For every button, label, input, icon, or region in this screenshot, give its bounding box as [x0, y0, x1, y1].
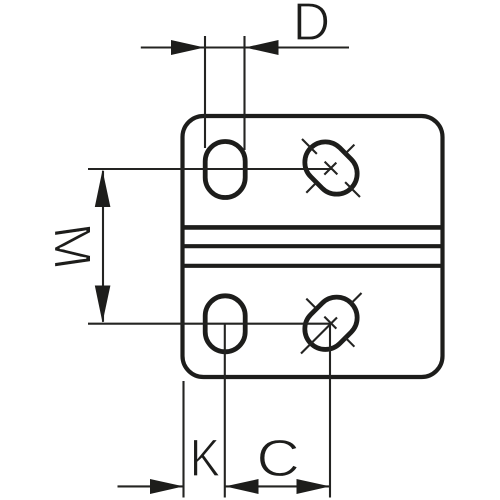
- hole top-left: [205, 142, 245, 198]
- slot top-right: [296, 133, 365, 202]
- extension line D left: [204, 36, 206, 148]
- svg-text:M: M: [43, 220, 101, 273]
- groove line 3: [184, 264, 441, 268]
- arrowhead D left: [171, 40, 205, 55]
- extension line M bottom: [88, 323, 331, 325]
- centerline slot bottom-right short axis: [306, 299, 355, 348]
- extension line M top: [88, 168, 332, 170]
- arrowhead M up: [95, 170, 111, 207]
- dimension line C: [225, 485, 330, 487]
- slot bottom-right: [296, 289, 365, 358]
- extension line C right: [329, 323, 331, 497]
- hole bottom-left: [205, 296, 245, 352]
- arrowhead M down: [95, 286, 111, 323]
- groove line 2: [184, 244, 441, 248]
- dimension line M: [102, 171, 104, 322]
- svg-text:C: C: [256, 429, 300, 487]
- arrowhead C right: [297, 479, 331, 494]
- arrowhead D right: [245, 40, 279, 55]
- centerline slot bottom-right long axis: [301, 318, 337, 354]
- extension line K right: [224, 324, 226, 498]
- arrowhead K outside: [150, 479, 184, 494]
- dimension line D: [141, 46, 349, 48]
- arrowhead C left: [225, 479, 259, 494]
- dimension tail K: [118, 485, 184, 487]
- extension line K left: [182, 381, 184, 498]
- plate outline: [183, 116, 443, 377]
- extension line D right: [243, 36, 245, 150]
- centerline slot top-right short axis: [306, 143, 355, 192]
- centerline slot top-right long axis: [302, 139, 360, 197]
- groove line 1: [184, 225, 441, 230]
- svg-text:K: K: [190, 429, 221, 488]
- svg-text:D: D: [293, 0, 330, 52]
